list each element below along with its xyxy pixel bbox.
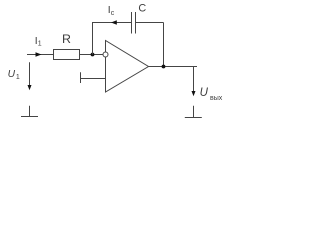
wire feedback top left segment: [92, 22, 132, 24]
voltage arrow U1: [29, 62, 31, 87]
voltage arrow Uvyh: [193, 67, 195, 93]
wire feedback top right segment: [136, 22, 164, 24]
svg-text:Ic: Ic: [108, 5, 115, 17]
svg-text:I1: I1: [35, 36, 42, 48]
svg-text:R: R: [62, 32, 71, 46]
inverting input bubble: [103, 52, 108, 57]
arrowhead current I1: [36, 52, 42, 56]
wire non-inverting input: [81, 78, 106, 80]
arrowhead current Ic: [111, 20, 117, 24]
capacitor C plate right: [135, 12, 137, 34]
capacitor C plate left: [131, 12, 133, 34]
wire feedback vertical right: [163, 23, 165, 67]
node B junction at output: [162, 65, 166, 69]
wire input: [27, 54, 54, 56]
ground left: [29, 106, 31, 117]
ground right: [193, 106, 195, 118]
wire resistor to inverting input: [80, 54, 103, 56]
svg-text:вых: вых: [210, 95, 223, 102]
resistor R: [54, 50, 80, 60]
svg-text:U: U: [8, 69, 16, 80]
svg-text:1: 1: [16, 74, 20, 81]
wire output: [149, 66, 198, 68]
svg-text:U: U: [200, 87, 209, 99]
terminal bar non-inverting input: [80, 72, 82, 83]
svg-text:C: C: [138, 3, 146, 15]
node A junction at inverting input: [91, 53, 95, 57]
wire feedback vertical left: [92, 23, 94, 55]
op-amp U1 triangle: [106, 41, 149, 93]
